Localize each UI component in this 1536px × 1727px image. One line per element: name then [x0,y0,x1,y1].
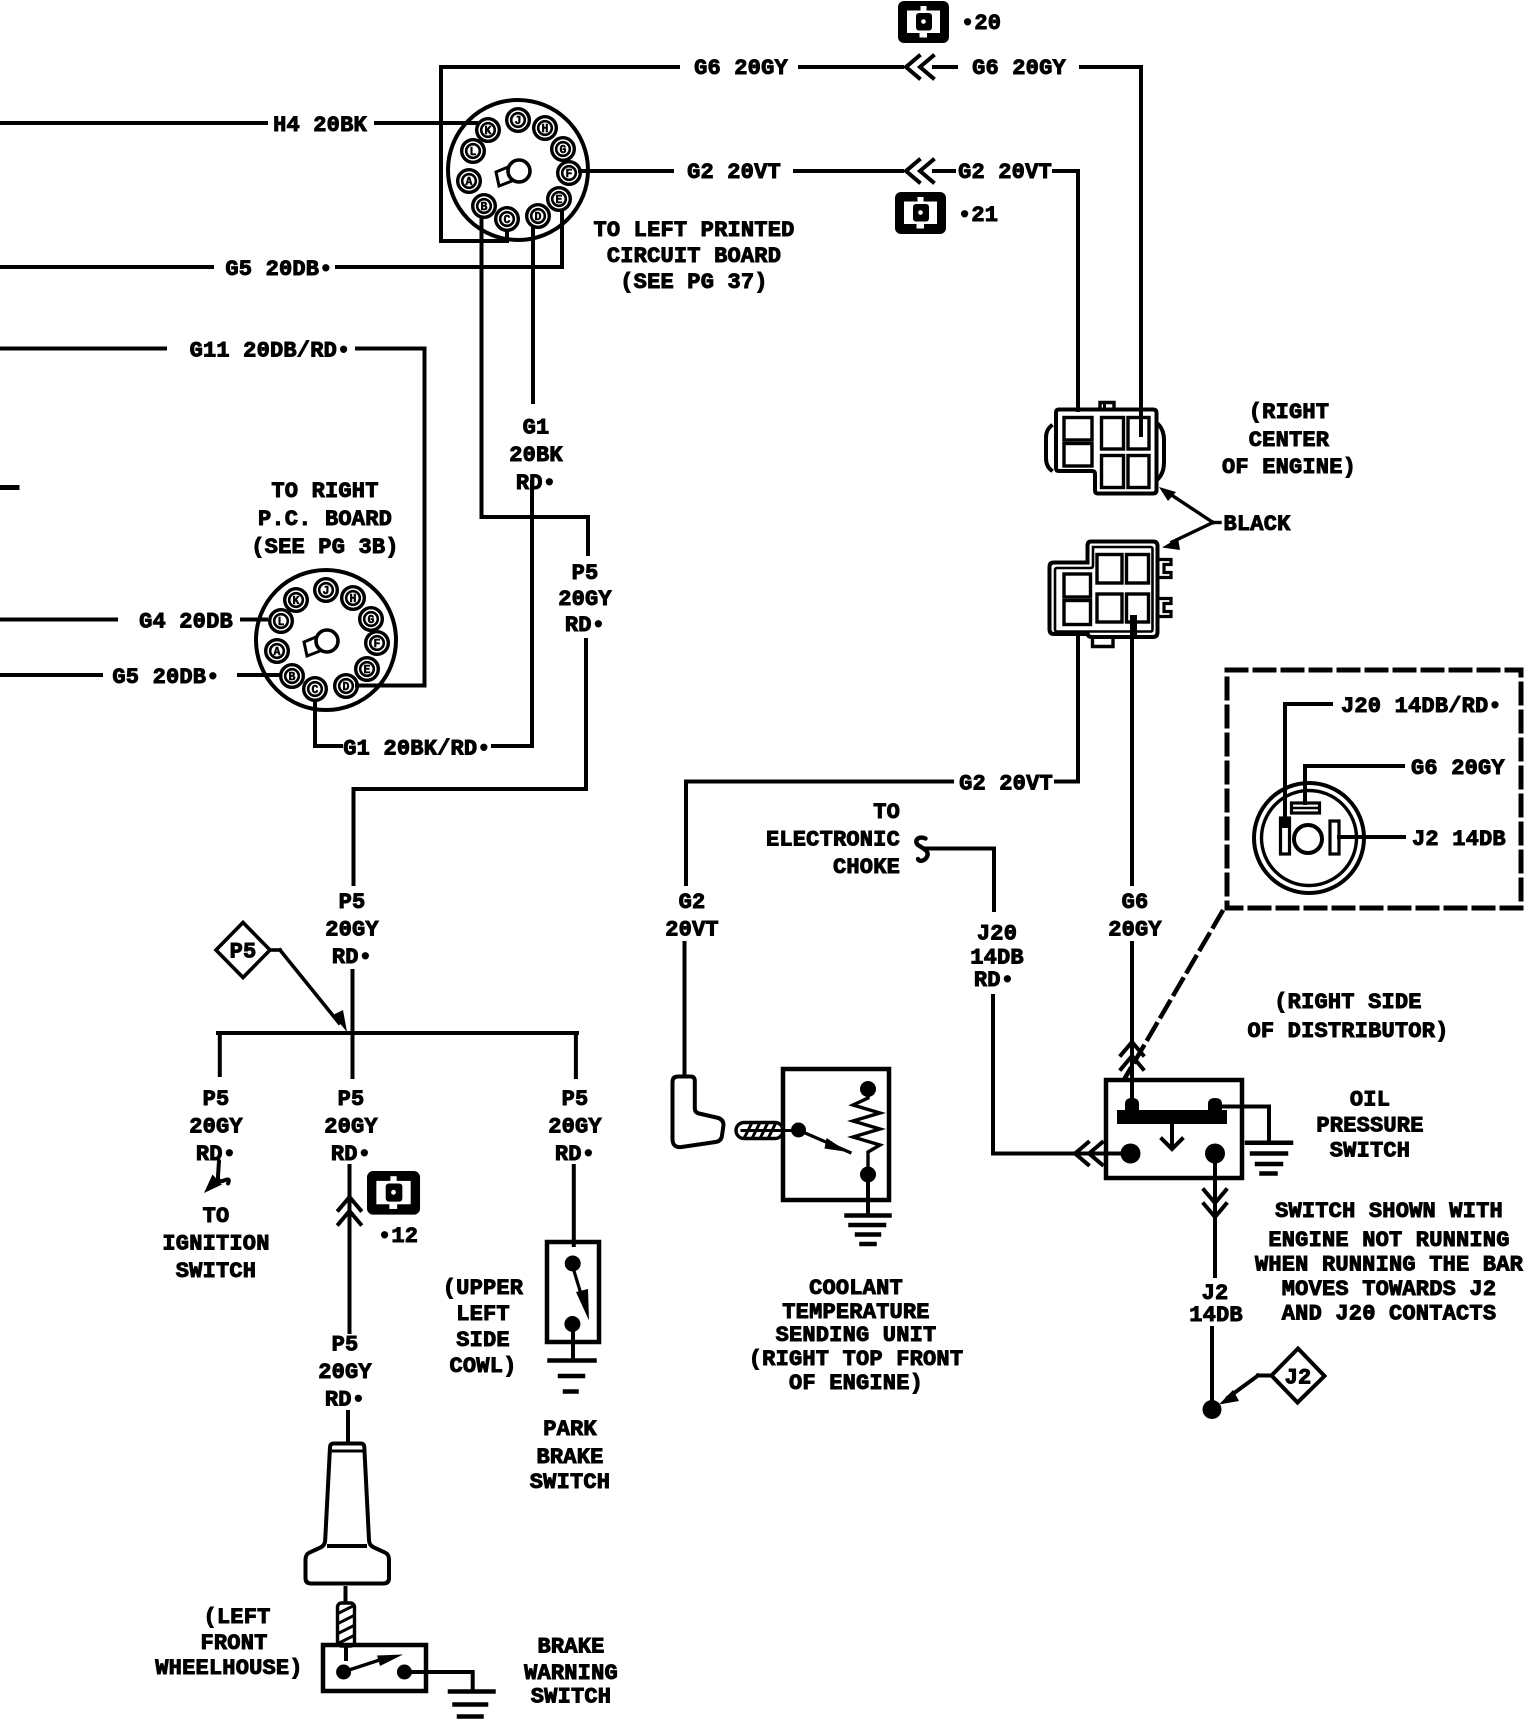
distributor center boss [1294,825,1322,853]
oil pressure switch contact J2 (right dot) [1205,1144,1225,1164]
wire G1 below label down [530,482,534,746]
svg-text:RD•: RD• [565,613,605,638]
brake warning switch arm [349,1661,378,1671]
svg-text:CENTER: CENTER [1249,428,1330,453]
dashed detail box (right side of distributor) [1227,670,1521,908]
svg-text:OIL: OIL [1350,1088,1390,1113]
svg-text:P5: P5 [572,561,599,586]
wire switch to ground vertical [1267,1107,1271,1142]
connector C3 cavity B [1128,418,1149,450]
leader line BLACK to C4 [1172,523,1213,543]
wire G6 after arrow [934,65,956,69]
wire sender to ground [866,1182,870,1214]
svg-text:IGNITION: IGNITION [162,1232,269,1257]
connector U2: to right P.C. board [256,570,396,710]
splice arrow down on J2 [1204,1190,1226,1217]
ground G5 (park brake switch) [550,1358,595,1363]
svg-text:•21: •21 [958,203,998,228]
brake warning switch left contact [336,1665,351,1680]
wire P5 jog horizontal [482,515,589,519]
wire P5 into junction [351,971,355,1033]
svg-text:14DB: 14DB [970,946,1024,971]
wire G4 to U2 pin L [242,618,266,622]
svg-text:RD•: RD• [332,945,372,970]
svg-text:BRAKE: BRAKE [537,1635,604,1660]
wire J2 leader [1339,835,1404,839]
connector C4 right clip 1 [1158,560,1171,578]
svg-text:OF DISTRIBUTOR): OF DISTRIBUTOR) [1247,1019,1448,1044]
connector C4 left cavity 1 [1064,574,1091,597]
wire shank into switch [344,1646,348,1659]
wire switch to ground [411,1672,473,1690]
svg-text:AND J20 CONTACTS: AND J20 CONTACTS [1282,1301,1496,1326]
svg-text:20BK: 20BK [509,443,563,468]
svg-text:SENDING UNIT: SENDING UNIT [776,1323,937,1348]
wire G4 20DB left segment [0,618,116,622]
rubber boot (left front wheelhouse grommet) [306,1444,390,1584]
pigtail hook to ignition switch [218,1161,229,1184]
svg-text:G2 20VT: G2 20VT [958,160,1052,185]
svg-text:J2: J2 [1285,1366,1312,1391]
sender pivot contact dot [791,1123,806,1138]
svg-text:(SEE PG 37): (SEE PG 37) [620,270,767,295]
svg-text:COWL): COWL) [449,1354,516,1379]
svg-text:OF ENGINE): OF ENGINE) [789,1371,923,1396]
svg-text:20GY: 20GY [324,1115,378,1140]
svg-text:20GY: 20GY [1108,918,1162,943]
net flag P5 diamond [216,923,270,978]
sender resistor zigzag [853,1096,880,1166]
SEC1 [441,1,1141,435]
svg-text:OF ENGINE): OF ENGINE) [1222,455,1356,480]
wire G6 stub inside C4 [1133,617,1137,637]
wire G2 20VT corner down (left of middle row) [684,782,688,885]
svg-text:PRESSURE: PRESSURE [1316,1114,1423,1139]
sender resistor top dot [860,1081,876,1097]
wire G6 leader [1305,766,1403,803]
wire switch to ground horizontal [1222,1105,1269,1109]
choke pigtail squiggle [916,838,927,861]
park brake switch top contact [565,1256,581,1272]
connector C3 cavity A [1102,418,1124,450]
ground G2 (coolant sender) [847,1213,890,1218]
net flag J2 diamond [1272,1349,1325,1403]
wire J2 14DB below switch [1213,1163,1217,1276]
oil pressure switch terminal bump left [1125,1098,1139,1110]
svg-text:LEFT: LEFT [456,1302,510,1327]
connector C3 cavity C [1102,456,1124,488]
wire G6 20GY below C4 [1130,617,1134,884]
wire center branch below label [348,1166,352,1332]
svg-text:MOVES TOWARDS J2: MOVES TOWARDS J2 [1282,1277,1496,1302]
inline connector icon no.21 [895,192,946,234]
svg-text:WHEN RUNNING THE BAR: WHEN RUNNING THE BAR [1255,1252,1524,1277]
svg-text:PARK: PARK [543,1417,597,1442]
ground G4 (brake warning switch) [450,1689,494,1694]
wire H4 20BK left segment [0,121,266,125]
connector C4 bottom tab [1093,637,1114,647]
svg-text:WHEELHOUSE): WHEELHOUSE) [155,1656,302,1681]
svg-text:RD•: RD• [516,471,556,496]
svg-text:WARNING: WARNING [524,1661,618,1686]
SEC3 [993,1080,1524,1419]
park brake switch S4 box [547,1242,599,1342]
connector C3 left cavity 2 [1064,444,1092,467]
wire G2 text to corner [1056,780,1078,784]
svg-text:TO: TO [203,1204,230,1229]
splice arrow on G2 [906,160,933,182]
svg-text:•20: •20 [961,11,1001,36]
wire P5 jog down stub [586,517,590,554]
wire P5 left branch [218,1033,222,1075]
svg-text:SWITCH: SWITCH [176,1259,256,1284]
svg-text:COOLANT: COOLANT [809,1276,903,1301]
oil pressure switch contact J20 (left dot) [1121,1144,1141,1164]
svg-text:SIDE: SIDE [456,1328,510,1353]
svg-text:(UPPER: (UPPER [443,1276,524,1301]
SEC4 [155,923,618,1717]
wire J2 below label [1210,1328,1214,1401]
svg-text:P5: P5 [562,1087,589,1112]
wire G6 stub inside C3 [1139,410,1143,435]
threaded shank of brake warning switch [338,1603,355,1646]
dashed leader to oil pressure switch [1125,912,1222,1078]
svg-text:G6 20GY: G6 20GY [694,56,788,81]
wire G11 to corner [357,347,425,351]
svg-text:ENGINE NOT RUNNING: ENGINE NOT RUNNING [1268,1228,1509,1253]
wire G2 vertical down to connector C3 [1076,171,1080,410]
connector C4 cavity D [1127,594,1149,622]
svg-text:(RIGHT: (RIGHT [1249,400,1329,425]
connector C3 (male half, right center of engine) body [1046,426,1051,470]
connector C4 cavity A [1097,555,1122,584]
park brake switch bottom contact [564,1316,580,1332]
svg-text:TEMPERATURE: TEMPERATURE [782,1300,929,1325]
wire G6 row mid [800,65,902,69]
stray wire stub at left edge [0,485,17,490]
svg-text:G11 20DB/RD•: G11 20DB/RD• [190,339,351,364]
svg-text:TO: TO [873,800,900,825]
svg-text:RD•: RD• [974,968,1014,993]
wire stub pin C down [505,231,509,241]
splice arrow up on G6 [1121,1042,1143,1069]
terminal G6 (top tab) [1292,803,1320,813]
terminal J2 (right slot) [1330,821,1339,854]
svg-text:G6 20GY: G6 20GY [972,56,1066,81]
leader from J2 diamond to node [1258,1374,1272,1378]
ground G1 (oil pressure switch) [1247,1141,1291,1146]
connector C4 (female half) body [1050,542,1158,638]
distributor connector outer ring [1254,783,1364,893]
svg-text:G6 20GY: G6 20GY [1411,756,1505,781]
splice arrow up on center branch [339,1197,361,1224]
svg-text:CIRCUIT BOARD: CIRCUIT BOARD [607,244,781,269]
wire pin B down [480,218,484,517]
svg-text:20VT: 20VT [665,918,719,943]
svg-text:BLACK: BLACK [1223,512,1291,537]
oil pressure switch bar [1117,1110,1227,1124]
leader from P5 diamond to junction [270,948,280,952]
wire G6 vertical into connector C3 [1139,67,1143,435]
svg-text:RD•: RD• [555,1142,595,1167]
svg-text:G1: G1 [523,416,550,441]
wire frame bottom of U1 [441,239,507,243]
connector C4 right clip 2 [1158,599,1171,617]
svg-text:TO LEFT PRINTED: TO LEFT PRINTED [593,218,794,243]
svg-text:SWITCH: SWITCH [531,1685,611,1710]
svg-text:20GY: 20GY [318,1360,372,1385]
wire G11 into U2 pin D [357,684,425,688]
threaded stud of coolant sender [736,1123,783,1139]
wire right branch to park brake switch [572,1166,576,1245]
connector C3 cavity D [1128,456,1149,488]
wire G2 below label to lug [683,943,687,1074]
wire pin D down [531,227,535,402]
wire H4 20BK to pin K [376,121,476,125]
svg-text:•12: •12 [378,1224,418,1249]
wire stub pin E down [560,211,564,267]
svg-text:G2 20VT: G2 20VT [959,772,1053,797]
wire below boot [344,1588,348,1604]
wire G5 20DB (lower) left segment [0,673,101,677]
oil pressure switch terminal bump right [1208,1098,1222,1110]
connector C3 left cavity 1 [1064,418,1092,441]
wire G6 20GY top row left [441,65,678,69]
wire J20 14DB RD to switch [993,1152,1122,1156]
wire G2 20VT from pin F [580,169,672,173]
wire P5 junction tee bar [218,1031,577,1035]
wire G1 corner to label [493,744,532,748]
wire frame left of U1 (pin C to G6 row) vertical [439,67,443,241]
svg-text:TO RIGHT: TO RIGHT [271,479,378,504]
node J2 terminal dot [1203,1400,1222,1419]
wire G2 row mid [795,169,902,173]
svg-text:P.C. BOARD: P.C. BOARD [258,507,392,532]
wire P5 down to label [352,789,356,884]
svg-text:(LEFT: (LEFT [203,1605,270,1630]
svg-text:G6: G6 [1122,890,1149,915]
wire G11 20DB/RD left segment [0,347,165,351]
svg-text:J2 14DB: J2 14DB [1412,827,1506,852]
splice arrow on J20 wire [1075,1143,1102,1165]
wire G6 below label [1130,943,1134,1103]
wire P5 center branch [351,1033,355,1077]
svg-text:RD•: RD• [325,1388,365,1413]
connector lug (coolant sender terminal) [673,1077,724,1148]
svg-text:G2: G2 [679,890,706,915]
connector C4 cavity C [1097,594,1122,622]
svg-text:20GY: 20GY [325,918,379,943]
svg-text:20GY: 20GY [189,1115,243,1140]
wire G2 to corner [1054,169,1078,173]
svg-text:G2 20VT: G2 20VT [687,160,781,185]
wire U2 pin C down [313,701,317,746]
svg-text:G5 20DB•: G5 20DB• [225,257,332,282]
leader line BLACK to C3 [1213,521,1220,524]
wire P5 right branch [574,1033,578,1077]
brake warning switch right contact [397,1665,412,1680]
wire G6 to corner [1081,65,1141,69]
svg-text:G1 20BK/RD•: G1 20BK/RD• [343,737,490,762]
connector C3 top latch tab [1100,403,1114,410]
wire G5 to U2 pin B [239,673,278,677]
wire G5 20DB to pin E [337,265,562,269]
svg-text:J20: J20 [977,922,1017,947]
sender resistor bottom dot [860,1167,876,1183]
park brake switch arm [574,1271,581,1294]
splice arrow on G6 [906,56,933,78]
wire park brake to ground [571,1332,575,1359]
connector C4 cavity B [1127,555,1149,584]
svg-text:FRONT: FRONT [200,1631,267,1656]
wire J20 leader [1285,704,1331,820]
connector U1: to left printed circuit board [448,100,588,240]
wire G5 20DB left segment [0,265,212,269]
svg-text:(SEE PG 3B): (SEE PG 3B) [251,535,398,560]
svg-text:SWITCH SHOWN WITH: SWITCH SHOWN WITH [1275,1199,1503,1224]
svg-text:(RIGHT SIDE: (RIGHT SIDE [1274,990,1421,1015]
inline connector icon no.12 [367,1171,420,1215]
svg-text:P5: P5 [332,1333,359,1358]
svg-text:20GY: 20GY [548,1115,602,1140]
svg-text:SWITCH: SWITCH [1330,1139,1410,1164]
wire G2 after arrow [934,169,954,173]
svg-text:G4 20DB: G4 20DB [139,610,233,635]
connector C4 left cavity 2 [1064,601,1091,625]
wire J20 14DB RD from choke tap [925,849,994,911]
svg-text:ELECTRONIC: ELECTRONIC [766,828,900,853]
svg-text:P5: P5 [339,890,366,915]
wire G2 20VT horizontal row (middle) [686,780,952,784]
wire G1 label to U2 pin C stub [315,744,341,748]
coolant temperature sending unit S2 box [783,1069,889,1200]
wire G11 vertical down to U2 pin D [423,349,427,686]
wire G2 20VT below C4 [1076,637,1080,782]
oil pressure switch S1 box [1106,1080,1242,1178]
wire P5 below label down [584,640,588,789]
inline connector icon no.20 [898,1,949,43]
svg-text:P5: P5 [338,1087,365,1112]
wire into boot [346,1412,350,1444]
SEC2 [686,400,1521,1103]
svg-text:14DB: 14DB [1189,1303,1243,1328]
sender wiper arm with arrowhead [804,1133,850,1153]
svg-text:SWITCH: SWITCH [530,1470,610,1495]
svg-text:CHOKE: CHOKE [833,855,900,880]
svg-text:G5 20DB•: G5 20DB• [112,665,219,690]
svg-text:P5: P5 [230,940,257,965]
terminal J20 (left slot) [1281,818,1290,854]
svg-text:RD•: RD• [196,1142,236,1167]
svg-text:(RIGHT TOP FRONT: (RIGHT TOP FRONT [749,1347,963,1372]
svg-text:H4 20BK: H4 20BK [273,113,367,138]
wire P5 horizontal left [354,787,587,791]
svg-text:J20 14DB/RD•: J20 14DB/RD• [1341,694,1502,719]
wire J20 below label to switch [991,996,995,1154]
oil pressure switch travel arrow [1170,1124,1174,1146]
svg-text:P5: P5 [203,1087,230,1112]
svg-text:BRAKE: BRAKE [536,1445,603,1470]
brake warning switch S3 box [323,1645,426,1691]
svg-text:20GY: 20GY [558,587,612,612]
svg-text:RD•: RD• [331,1142,371,1167]
